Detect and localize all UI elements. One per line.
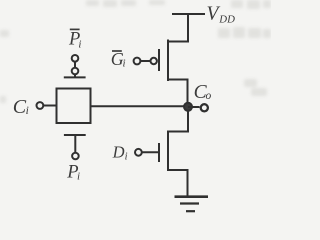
- wire TG to node C_o: [91, 105, 189, 107]
- nmos Q2 channel bar: [167, 131, 169, 172]
- wire VDD to PMOS source: [168, 14, 188, 42]
- svg-text:i: i: [125, 152, 128, 163]
- TG bottom gate stem wire: [74, 135, 76, 153]
- terminal C_o: [201, 104, 208, 111]
- terminal D_i: [135, 149, 142, 156]
- pmos Q1 drain wire to node: [168, 80, 188, 107]
- faint page bleed-through marks (background): [0, 0, 271, 103]
- TG top gate bubble: [72, 68, 79, 75]
- svg-text:i: i: [123, 58, 126, 70]
- nmos Q2 gate wire: [142, 151, 158, 153]
- svg-text:i: i: [26, 105, 29, 117]
- svg-text:i: i: [77, 171, 80, 183]
- TG bottom gate bar: [64, 134, 86, 136]
- svg-text:D: D: [112, 143, 125, 162]
- VDD rail: [172, 13, 205, 15]
- pmos Q1 gate bubble: [151, 58, 157, 64]
- pmos Q1 gate wire: [141, 60, 151, 62]
- svg-text:o: o: [206, 90, 212, 102]
- transmission gate TG box: [57, 89, 91, 124]
- nmos Q2 source wire to ground: [168, 170, 188, 196]
- wire node to output terminal: [188, 106, 200, 108]
- terminal Gbar_i: [134, 58, 141, 65]
- terminal C_i: [37, 102, 44, 109]
- terminal Pbar_i: [72, 55, 79, 62]
- wire C_i to TG: [43, 105, 56, 107]
- nmos Q2 gate bar: [158, 143, 160, 162]
- terminal P_i: [72, 153, 79, 160]
- ground: [175, 197, 209, 212]
- TG top gate bar: [64, 76, 86, 78]
- svg-text:DD: DD: [218, 13, 235, 25]
- svg-text:i: i: [78, 39, 81, 51]
- pmos Q1 channel bar: [167, 40, 169, 82]
- node C_o junction dot: [184, 103, 192, 111]
- pmos Q1 gate bar: [158, 49, 160, 71]
- wire node to NMOS drain: [168, 106, 188, 131]
- TG top gate stem wire: [74, 62, 76, 78]
